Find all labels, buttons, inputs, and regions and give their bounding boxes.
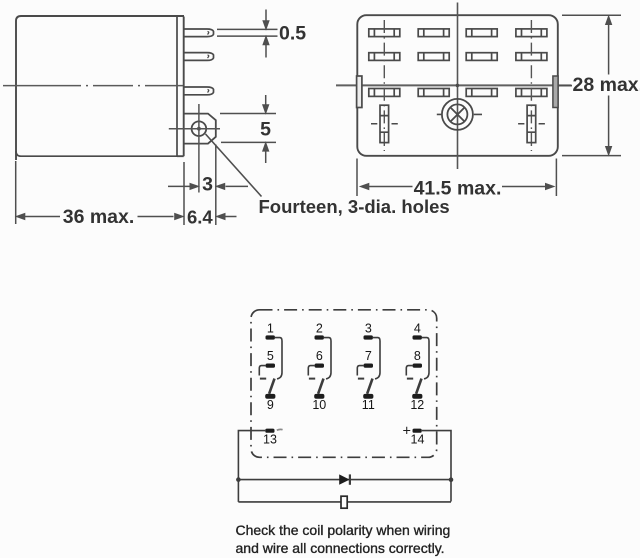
coil element <box>341 496 347 508</box>
slot r1c3 <box>466 29 497 37</box>
leader 28 max <box>558 85 572 87</box>
NC contact wire 2 <box>324 338 331 379</box>
slot r3c4 <box>516 89 547 97</box>
pin 11 terminal <box>363 394 373 399</box>
pole 1 <box>259 322 282 412</box>
slot r2c4 <box>516 53 547 61</box>
relay outline (dash-dot box) <box>251 310 437 458</box>
slot r2c3 <box>466 53 497 61</box>
dim 5 extension lines <box>220 114 276 143</box>
side tab left <box>357 76 362 108</box>
svg-text:and wire all connections corre: and wire all connections correctly. <box>236 540 445 556</box>
case right face / flange <box>177 17 184 157</box>
NO contact tick 4 <box>407 378 413 380</box>
dim 28 max vertical line <box>608 25 610 147</box>
pin 7 terminal <box>364 364 373 368</box>
pin 6 terminal <box>315 364 324 368</box>
svg-text:Check the coil polarity when w: Check the coil polarity when wiring <box>236 522 451 538</box>
svg-text:6: 6 <box>316 349 323 363</box>
pin 1 terminal <box>266 335 275 339</box>
diode D1 <box>339 474 349 484</box>
pin slots grid <box>369 29 547 97</box>
hole crosshair vertical / extension line B <box>198 104 200 193</box>
pin 9 terminal <box>265 394 275 399</box>
svg-text:41.5 max.: 41.5 max. <box>414 178 502 200</box>
NO contact wire 2 <box>308 366 314 376</box>
relay case (side view) <box>16 16 184 160</box>
dim 28 max extension lines <box>562 15 621 155</box>
side tab right <box>553 76 558 108</box>
NC contact wire 4 <box>422 338 429 379</box>
dim 41.5 line <box>369 186 546 188</box>
pin 8 terminal <box>413 364 422 368</box>
pin 12 terminal <box>412 394 422 399</box>
dash-dot axis col1 <box>383 20 385 151</box>
slot r2c1 <box>369 53 400 61</box>
pin 4 terminal <box>413 335 422 339</box>
vertical centerline <box>457 3 459 170</box>
junction dot left <box>236 477 241 482</box>
movable arm 2 <box>318 379 323 394</box>
junction dot right <box>449 477 454 482</box>
dim 5 arrows <box>265 95 267 106</box>
slot r3c3 <box>466 89 497 97</box>
case right inner line <box>176 17 178 156</box>
pin 2 terminal <box>315 335 324 339</box>
svg-text:1: 1 <box>267 322 274 336</box>
dim 0.5 extension lines <box>217 29 278 36</box>
NO contact wire 4 <box>406 366 412 376</box>
movable arm 1 <box>269 379 274 394</box>
diode line (middle) <box>238 479 451 481</box>
dim 3 <box>168 185 190 187</box>
extension line left (36 max) <box>15 161 17 224</box>
coil tick at pin 13 <box>277 428 283 431</box>
pin 10 terminal <box>314 394 324 399</box>
wire pin14 to right rail <box>422 431 451 502</box>
slot r1c2 <box>418 29 449 37</box>
NO contact wire 3 <box>357 366 363 376</box>
svg-text:14: 14 <box>411 432 425 446</box>
svg-text:28 max.: 28 max. <box>573 74 640 96</box>
svg-text:10: 10 <box>312 398 326 412</box>
hole circle <box>192 121 207 136</box>
slot r1c1 <box>369 29 400 37</box>
pole 4 <box>406 322 429 412</box>
pin 2 <box>184 53 214 61</box>
pole 2 <box>308 322 331 412</box>
dash-dot axis col4 <box>530 20 532 151</box>
centerline (side view) <box>3 85 183 87</box>
relay base outline (bottom view) <box>357 15 558 156</box>
svg-text:8: 8 <box>414 349 421 363</box>
center dot on axis <box>456 84 460 88</box>
slot r3c1 <box>369 89 400 97</box>
NC contact wire 1 <box>275 338 282 379</box>
pin 5 terminal <box>266 364 275 368</box>
movable arm 4 <box>416 379 421 394</box>
svg-text:12: 12 <box>410 398 424 412</box>
pole 3 <box>357 322 380 412</box>
hole center dot <box>197 127 201 131</box>
svg-text:4: 4 <box>414 322 421 336</box>
extension line C (pin tip / tab edge) <box>215 145 217 226</box>
svg-text:0.5: 0.5 <box>279 23 306 45</box>
mounting tab with hole <box>184 114 216 144</box>
hole crosshair horizontal <box>169 128 220 130</box>
svg-text:9: 9 <box>267 398 274 412</box>
svg-text:5: 5 <box>267 349 274 363</box>
slot r2c2 <box>418 53 449 61</box>
leader line to hole <box>206 134 262 197</box>
wire pin13 to left rail <box>238 431 265 502</box>
bottom wire <box>238 501 451 503</box>
NO contact tick 2 <box>309 378 315 380</box>
dim 0.5 arrows <box>265 10 267 23</box>
NC contact wire 3 <box>373 338 380 379</box>
svg-text:11: 11 <box>362 398 375 412</box>
slot r3c2 <box>418 89 449 97</box>
svg-text:13: 13 <box>263 432 277 446</box>
dim 6.4 right arrow <box>225 216 237 218</box>
pin 3 terminal <box>364 335 373 339</box>
pin 3 <box>184 87 214 95</box>
svg-text:6.4: 6.4 <box>187 207 213 228</box>
dim 36 max line <box>25 216 174 218</box>
movable arm 3 <box>367 379 372 394</box>
svg-text:3: 3 <box>202 174 213 196</box>
latch slot right <box>518 105 545 142</box>
horizontal centerline <box>336 84 572 86</box>
svg-text:3: 3 <box>365 322 372 336</box>
svg-text:5: 5 <box>260 119 271 141</box>
NO contact tick 3 <box>358 378 364 380</box>
svg-text:7: 7 <box>365 349 372 363</box>
NO contact wire 1 <box>259 366 265 376</box>
svg-text:36 max.: 36 max. <box>63 206 135 228</box>
pin 1 <box>184 29 214 37</box>
center hub circle with X <box>437 99 482 130</box>
latch slot left <box>371 105 398 142</box>
slot r1c4 <box>516 29 547 37</box>
dim 41.5 extension lines <box>357 159 556 197</box>
pin 13 terminal <box>265 429 274 433</box>
extension line A (body face) <box>183 162 185 225</box>
svg-text:2: 2 <box>316 322 323 336</box>
pin 14 terminal <box>413 429 422 433</box>
NO contact tick 1 <box>260 378 266 380</box>
